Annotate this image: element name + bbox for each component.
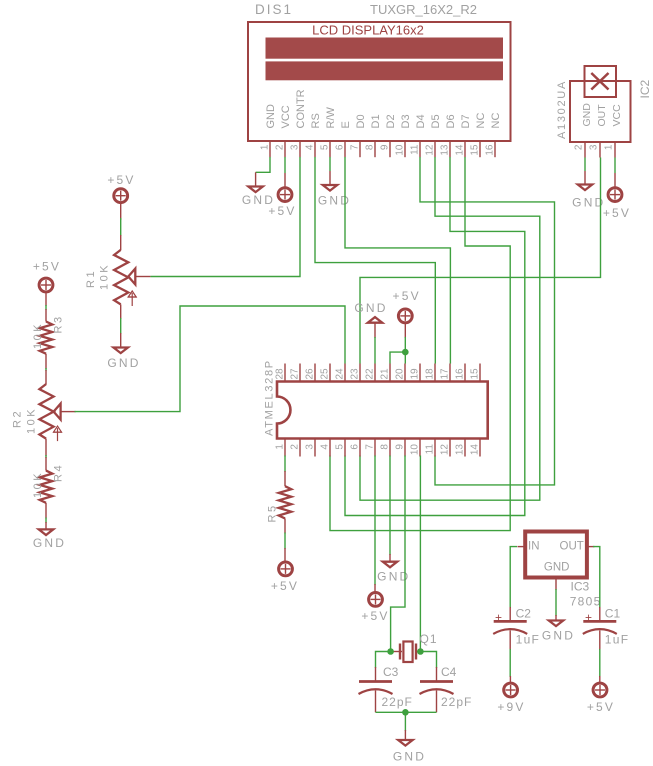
svg-text:D5: D5 [430,114,442,128]
wire R3 top [45,305,47,310]
ATMEL pin 1 [284,439,286,457]
ATMEL pin 20 [404,364,406,382]
svg-text:+5V: +5V [268,204,296,218]
svg-text:15: 15 [470,144,481,156]
ground GND (LCD pin5) [318,171,351,208]
ATMEL pin 8 [389,439,391,457]
svg-text:A1302UA: A1302UA [556,80,568,139]
wire IC2 pin2 to GND [584,158,586,172]
wire ATMEL pin8 to GND [389,456,391,556]
svg-text:GND: GND [581,103,593,127]
junction (crystal left) [387,648,394,655]
wire R2 to R4 [45,455,47,458]
svg-text:22: 22 [365,368,376,380]
resistor R3 10K [32,309,65,369]
supply +5V (ATMEL pin20) [393,289,421,338]
svg-text:1uF: 1uF [516,633,541,647]
LCD pin 16 [494,141,496,157]
resistor R5 [267,471,292,534]
svg-text:8: 8 [380,444,391,450]
wire crystal right to C4 [420,652,436,669]
svg-text:9: 9 [380,144,391,150]
svg-text:DIS1: DIS1 [255,2,293,17]
ATMEL pin 11 [434,439,436,457]
wire LCD pin11 D4 to ATMEL pin11 [420,157,555,485]
ground GND (crystal caps) [393,730,426,764]
svg-text:C2: C2 [516,607,532,621]
wire LCD pin5 to GND [329,157,331,171]
svg-text:20: 20 [395,368,406,380]
ground GND (ATMEL pin8) [377,554,410,584]
wire ATMEL pin10 to crystal [419,456,421,652]
svg-text:5: 5 [320,144,331,150]
svg-text:RS: RS [310,113,322,128]
svg-text:+5V: +5V [33,260,61,274]
svg-text:3: 3 [589,144,600,150]
ATMEL pin 10 [419,439,421,457]
svg-text:+: + [495,611,502,625]
svg-text:GND: GND [33,536,66,550]
svg-text:2: 2 [290,444,301,450]
svg-text:2: 2 [275,144,286,150]
svg-text:GND: GND [354,301,387,315]
svg-text:R2: R2 [12,409,24,428]
wire ATMEL pin9 to crystal [391,456,405,652]
supply +5V (ATMEL pin7) [361,584,389,623]
svg-text:GND: GND [107,356,140,370]
IC3 pin OUT [587,546,595,548]
wire C3/C4 ground rail [376,711,437,713]
svg-text:GND: GND [318,194,351,208]
LCD pin 15 [479,141,481,157]
svg-text:18: 18 [425,368,436,380]
svg-text:R/W: R/W [325,107,337,129]
junction (crystal right) [417,648,424,655]
svg-text:1uF: 1uF [605,633,630,647]
wire C1 to +5V [599,649,601,677]
wire ATMEL pin7 to +5V [374,456,376,586]
LCD pin 12 [434,141,436,157]
capacitor C1 1uF [583,607,630,651]
crystal Q1 [391,632,438,662]
svg-text:E: E [340,121,352,128]
LCD pin 4 [314,141,316,157]
svg-text:10K: 10K [32,322,44,349]
svg-text:26: 26 [305,368,316,380]
svg-text:IC3: IC3 [571,580,590,594]
ATMEL pin 13 [464,439,466,457]
svg-text:10K: 10K [26,407,38,434]
svg-text:10K: 10K [32,471,44,498]
svg-text:21: 21 [380,368,391,380]
junction (AVCC) [402,349,409,356]
capacitor C3 22pF [359,665,413,712]
svg-text:D6: D6 [445,114,457,128]
wire LCD pin13 D6 to ATMEL pin5 [345,157,525,516]
svg-text:+5V: +5V [107,173,135,187]
ATMEL pin 9 [404,439,406,457]
ATMEL pin 22 [374,364,376,382]
svg-text:+: + [585,611,592,625]
ground GND (R4) [33,522,66,550]
svg-text:VCC: VCC [280,105,292,128]
ground GND (IC3) [542,615,575,643]
wire IC3 GND [555,589,557,616]
ground GND (R1) [107,333,140,370]
svg-text:4: 4 [305,144,316,150]
svg-text:11: 11 [410,144,421,155]
ATMEL pin 4 [329,439,331,457]
svg-text:D1: D1 [370,114,382,128]
svg-text:22pF: 22pF [382,695,413,709]
resistor R4 10K [32,457,65,519]
svg-text:+5V: +5V [603,206,631,220]
svg-text:IC2: IC2 [638,80,652,99]
capacitor C2 1uF [493,607,540,651]
svg-text:14: 14 [455,144,466,156]
svg-text:GND: GND [544,562,570,574]
ATMEL pin 2 [299,439,301,457]
svg-text:NC: NC [475,113,487,129]
LCD pin 9 [389,141,391,157]
svg-text:4: 4 [320,444,331,450]
wire R2 wiper to ATMEL pin24 [75,306,346,412]
ATMEL pin 24 [344,364,346,382]
svg-text:6: 6 [350,444,361,450]
LCD display DIS1 TUXGR_16X2_R2 [248,2,511,157]
svg-text:12: 12 [440,444,451,456]
supply +5V (IC2) [603,173,631,220]
ground GND (ATMEL pin22, pointing up) [354,301,387,338]
wire IC3 OUT to C1 [593,547,600,608]
ATMEL pin 3 [314,439,316,457]
supply +5V (R5) [271,548,299,593]
svg-text:10: 10 [410,444,421,456]
ATMEL pin 5 [344,439,346,457]
svg-text:D7: D7 [460,114,472,128]
svg-text:16: 16 [455,368,466,380]
svg-text:NC: NC [490,113,502,129]
svg-text:13: 13 [455,444,466,456]
wire LCD pin12 D5 to ATMEL pin6 [360,157,540,500]
svg-text:7: 7 [350,144,361,150]
ATMEL pin 25 [329,364,331,382]
svg-text:12: 12 [425,144,436,156]
ATMEL pin 21 [389,364,391,382]
svg-text:+5V: +5V [271,579,299,593]
svg-text:R1: R1 [85,269,97,288]
ATMEL pin 18 [434,364,436,382]
svg-text:D0: D0 [355,114,367,128]
svg-text:CONTR: CONTR [295,89,307,128]
resistor R1 10K potentiometer [85,235,150,319]
ATMEL pin 12 [449,439,451,457]
ATMEL pin 28 [284,364,286,382]
wire IC3 IN to C2 [510,547,517,608]
ATMEL pin 17 [449,364,451,382]
ATMEL pin 16 [464,364,466,382]
wire R4 bottom [45,518,47,524]
svg-text:OUT: OUT [596,104,608,127]
svg-text:1: 1 [604,144,615,150]
svg-text:R3: R3 [53,314,65,333]
wire LCD pin6 E to ATMEL pin17 [345,157,450,364]
LCD pin 6 [344,141,346,157]
svg-text:C4: C4 [441,665,457,679]
svg-text:LCD DISPLAY16x2: LCD DISPLAY16x2 [312,23,424,38]
svg-text:9: 9 [395,444,406,450]
wire ATMEL pin1 to R5 [284,456,286,473]
microcontroller ATMEL328P [264,359,488,456]
svg-text:15: 15 [470,368,481,380]
IC3 pin IN [518,546,526,548]
svg-text:GND: GND [542,629,575,643]
LCD pin 11 [419,141,421,157]
svg-text:C1: C1 [605,607,621,621]
wire LCD pin14 D7 to ATMEL pin4 [330,157,510,531]
svg-text:11: 11 [425,444,436,455]
svg-text:10: 10 [395,144,406,156]
svg-text:+5V: +5V [361,609,389,623]
ground GND (LCD pin1) [242,172,275,207]
svg-text:GND: GND [393,750,426,764]
svg-text:25: 25 [320,368,331,380]
wire IC2 pin1 to +5V [614,158,616,174]
svg-text:14: 14 [470,444,481,456]
wire R3 to R2 [45,368,47,371]
ATMEL pin 23 [359,364,361,382]
LCD pin 3 [299,141,301,157]
svg-text:19: 19 [410,368,421,380]
svg-text:+5V: +5V [587,700,615,714]
supply +9V [497,676,525,714]
ATMEL pin 15 [479,364,481,382]
ATMEL pin 26 [314,364,316,382]
svg-text:C3: C3 [383,665,399,679]
IC3 pin GND [555,578,557,591]
LCD pin 14 [464,141,466,157]
voltage regulator IC3 7805 [518,532,602,609]
svg-text:10K: 10K [99,263,111,290]
svg-text:IN: IN [528,541,540,553]
svg-text:17: 17 [440,368,451,380]
resistor R2 10K potentiometer [12,370,76,456]
svg-text:7805: 7805 [570,595,602,609]
LCD pin 5 [329,141,331,157]
LCD pin 13 [449,141,451,157]
ATMEL pin 14 [479,439,481,457]
ground GND (IC2) [572,171,605,210]
svg-text:22pF: 22pF [441,695,472,709]
svg-text:D2: D2 [385,114,397,128]
svg-text:VCC: VCC [611,104,623,127]
svg-text:D4: D4 [415,114,427,128]
wire branch to ATMEL pin21 [390,352,405,363]
svg-text:24: 24 [335,368,346,380]
ATMEL pin 27 [299,364,301,382]
wire ATMEL pin22 to GND [374,337,376,364]
supply +5V (C1) [587,676,615,714]
wire LCD pin1 to GND [256,157,270,172]
svg-text:23: 23 [350,368,361,380]
supply +5V (LCD pin2) [268,173,296,218]
svg-text:16: 16 [485,144,496,156]
svg-text:OUT: OUT [560,541,584,553]
svg-text:3: 3 [290,144,301,150]
capacitor C4 22pF [420,665,473,712]
wire +5V to ATMEL pin20 [404,337,406,364]
svg-text:D3: D3 [400,114,412,128]
wire LCD pin2 to +5V [284,157,286,173]
svg-text:Q1: Q1 [420,632,438,646]
LCD pin 8 [374,141,376,157]
svg-text:+5V: +5V [393,289,421,303]
svg-text:3: 3 [305,444,316,450]
svg-text:27: 27 [290,368,301,380]
svg-text:5: 5 [335,444,346,450]
svg-text:+9V: +9V [497,700,525,714]
LCD pin 1 [269,141,271,157]
svg-text:28: 28 [275,368,286,380]
svg-text:8: 8 [365,144,376,150]
supply +5V (R1 top) [107,173,135,220]
svg-text:6: 6 [335,144,346,150]
svg-text:13: 13 [440,144,451,156]
wire LCD pin4 RS to ATMEL pin18 [315,157,435,364]
LCD pin 2 [284,141,286,157]
svg-text:R4: R4 [53,463,65,482]
ATMEL pin 7 [374,439,376,457]
svg-text:R5: R5 [267,503,279,522]
svg-text:7: 7 [365,444,376,450]
LCD pin 7 [359,141,361,157]
LCD pin 10 [404,141,406,157]
svg-text:TUXGR_16X2_R2: TUXGR_16X2_R2 [370,2,477,17]
wire C2 to +9V [509,649,511,677]
junction (rail) [402,709,409,716]
wire R1 bottom [120,318,122,334]
supply +5V (R3 top) [33,260,61,307]
svg-text:GND: GND [265,104,277,129]
wire R5 to +5V [284,533,286,550]
svg-text:2: 2 [574,144,585,150]
wire LCD pin3 CONTR to R1 wiper [150,157,300,277]
wire IC2 pin3 OUT to ATMEL pin23 [360,158,601,364]
hall sensor IC2 A1302UA [556,66,652,158]
wire R1 top [120,218,122,236]
wire crystal left to C3 [376,652,391,669]
svg-text:1: 1 [260,144,271,150]
ATMEL pin 6 [359,439,361,457]
ATMEL pin 19 [419,364,421,382]
svg-text:1: 1 [275,444,286,450]
